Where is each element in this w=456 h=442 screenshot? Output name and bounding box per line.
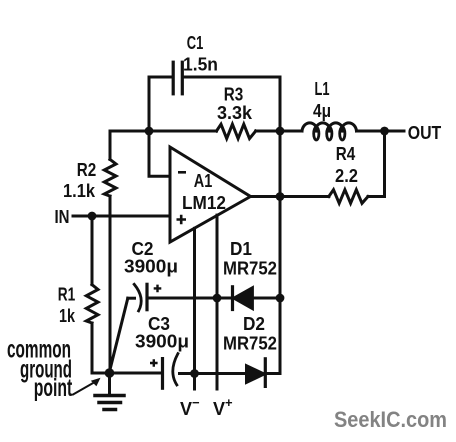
wire: top rail right segment <box>357 130 385 133</box>
svg-text:C1: C1 <box>187 33 204 53</box>
svg-text:2.2: 2.2 <box>335 166 358 186</box>
svg-text:SeekIC.com: SeekIC.com <box>334 407 447 432</box>
capacitor C2 <box>134 284 147 311</box>
node: top rail / output vertical junction <box>276 127 285 136</box>
wire: R2 bottom lead down to ground node <box>109 196 112 373</box>
svg-text:4μ: 4μ <box>313 101 331 121</box>
resistor R3 <box>217 124 256 138</box>
wire: R1 top lead <box>91 216 94 285</box>
svg-text:R4: R4 <box>336 144 356 164</box>
wire: D2 to output rail <box>265 372 280 375</box>
resistor R2 <box>104 159 116 196</box>
svg-text:1k: 1k <box>59 306 76 326</box>
diode D2 <box>247 359 266 387</box>
wire: C2 to D1 segment <box>147 297 233 300</box>
wire: C3 to D2 segment <box>180 372 247 375</box>
wire: node to R2 corner <box>110 130 149 133</box>
wire: C1 loop top right lead <box>184 76 280 79</box>
svg-text:OUT: OUT <box>408 123 442 143</box>
svg-text:3900μ: 3900μ <box>124 257 178 277</box>
svg-text:LM12: LM12 <box>182 193 226 213</box>
op-amp minus sign <box>178 171 186 174</box>
svg-text:R1: R1 <box>58 285 76 305</box>
node: IN junction <box>88 212 97 221</box>
capacitor C2 plus sign <box>154 285 162 293</box>
wire: R4 right lead and up to OUT node <box>368 131 385 197</box>
svg-text:1.5n: 1.5n <box>183 55 218 75</box>
wire: V- supply line <box>193 228 196 389</box>
svg-text:1.1k: 1.1k <box>63 181 96 201</box>
svg-text:V: V <box>180 399 192 419</box>
diode D1 <box>233 287 253 310</box>
inductor L1 <box>302 123 357 140</box>
wire: C1 loop left vertical <box>148 77 151 131</box>
node: op-amp output junction <box>276 192 285 201</box>
op-amp A1 <box>170 147 251 242</box>
svg-text:D1: D1 <box>230 239 252 259</box>
capacitor C3 plus sign <box>150 359 158 367</box>
wire: C1 loop top left lead <box>149 76 172 79</box>
wire: top rail middle segment <box>256 130 302 133</box>
svg-text:D2: D2 <box>243 314 265 334</box>
node: common ground point <box>105 368 115 378</box>
wire: output vertical rail <box>279 131 282 374</box>
wire: C1 loop right vertical <box>279 77 282 131</box>
wire: bottom rail left segment <box>110 372 162 375</box>
capacitor C3 <box>163 354 178 389</box>
node: V- / bottom rail junction <box>190 369 199 378</box>
wire: op-amp output lead <box>251 195 281 198</box>
node: inverting input junction <box>145 127 154 136</box>
svg-text:−: − <box>192 395 200 410</box>
svg-text:+: + <box>225 395 233 410</box>
wire: OUT stub <box>385 130 405 133</box>
svg-text:point: point <box>34 374 73 402</box>
svg-text:IN: IN <box>55 207 70 227</box>
node: V+ / D1 junction <box>213 294 222 303</box>
resistor R1 <box>86 285 98 323</box>
svg-text:3900μ: 3900μ <box>135 332 189 352</box>
svg-text:3.3k: 3.3k <box>217 103 253 123</box>
wire: R1 bottom lead <box>92 323 110 373</box>
svg-text:V: V <box>213 399 225 419</box>
wire: inverting input (node down and right) <box>149 131 170 176</box>
capacitor C1 <box>173 62 182 94</box>
wire: C2 left lead <box>128 297 135 300</box>
node: OUT junction <box>380 127 389 136</box>
wire: diagonal from ground node to C2 <box>110 298 128 371</box>
svg-text:MR752: MR752 <box>223 334 277 354</box>
wire: V+ supply line <box>216 215 219 389</box>
annotation arrow to ground point <box>73 378 101 395</box>
wire: R4 left lead <box>280 195 329 198</box>
svg-text:MR752: MR752 <box>223 259 277 279</box>
ground <box>95 373 124 410</box>
svg-text:L1: L1 <box>315 79 330 99</box>
wire: D1 to output rail <box>252 297 280 300</box>
wire: R2 top lead <box>109 131 112 159</box>
node: D1 / output rail junction <box>276 294 285 303</box>
svg-text:A1: A1 <box>194 171 213 191</box>
svg-text:R2: R2 <box>77 160 97 180</box>
wire: IN lead <box>73 215 170 218</box>
wire: top rail left segment <box>149 130 217 133</box>
svg-text:R3: R3 <box>224 85 244 105</box>
resistor R4 <box>329 190 368 204</box>
op-amp plus sign <box>177 215 187 224</box>
